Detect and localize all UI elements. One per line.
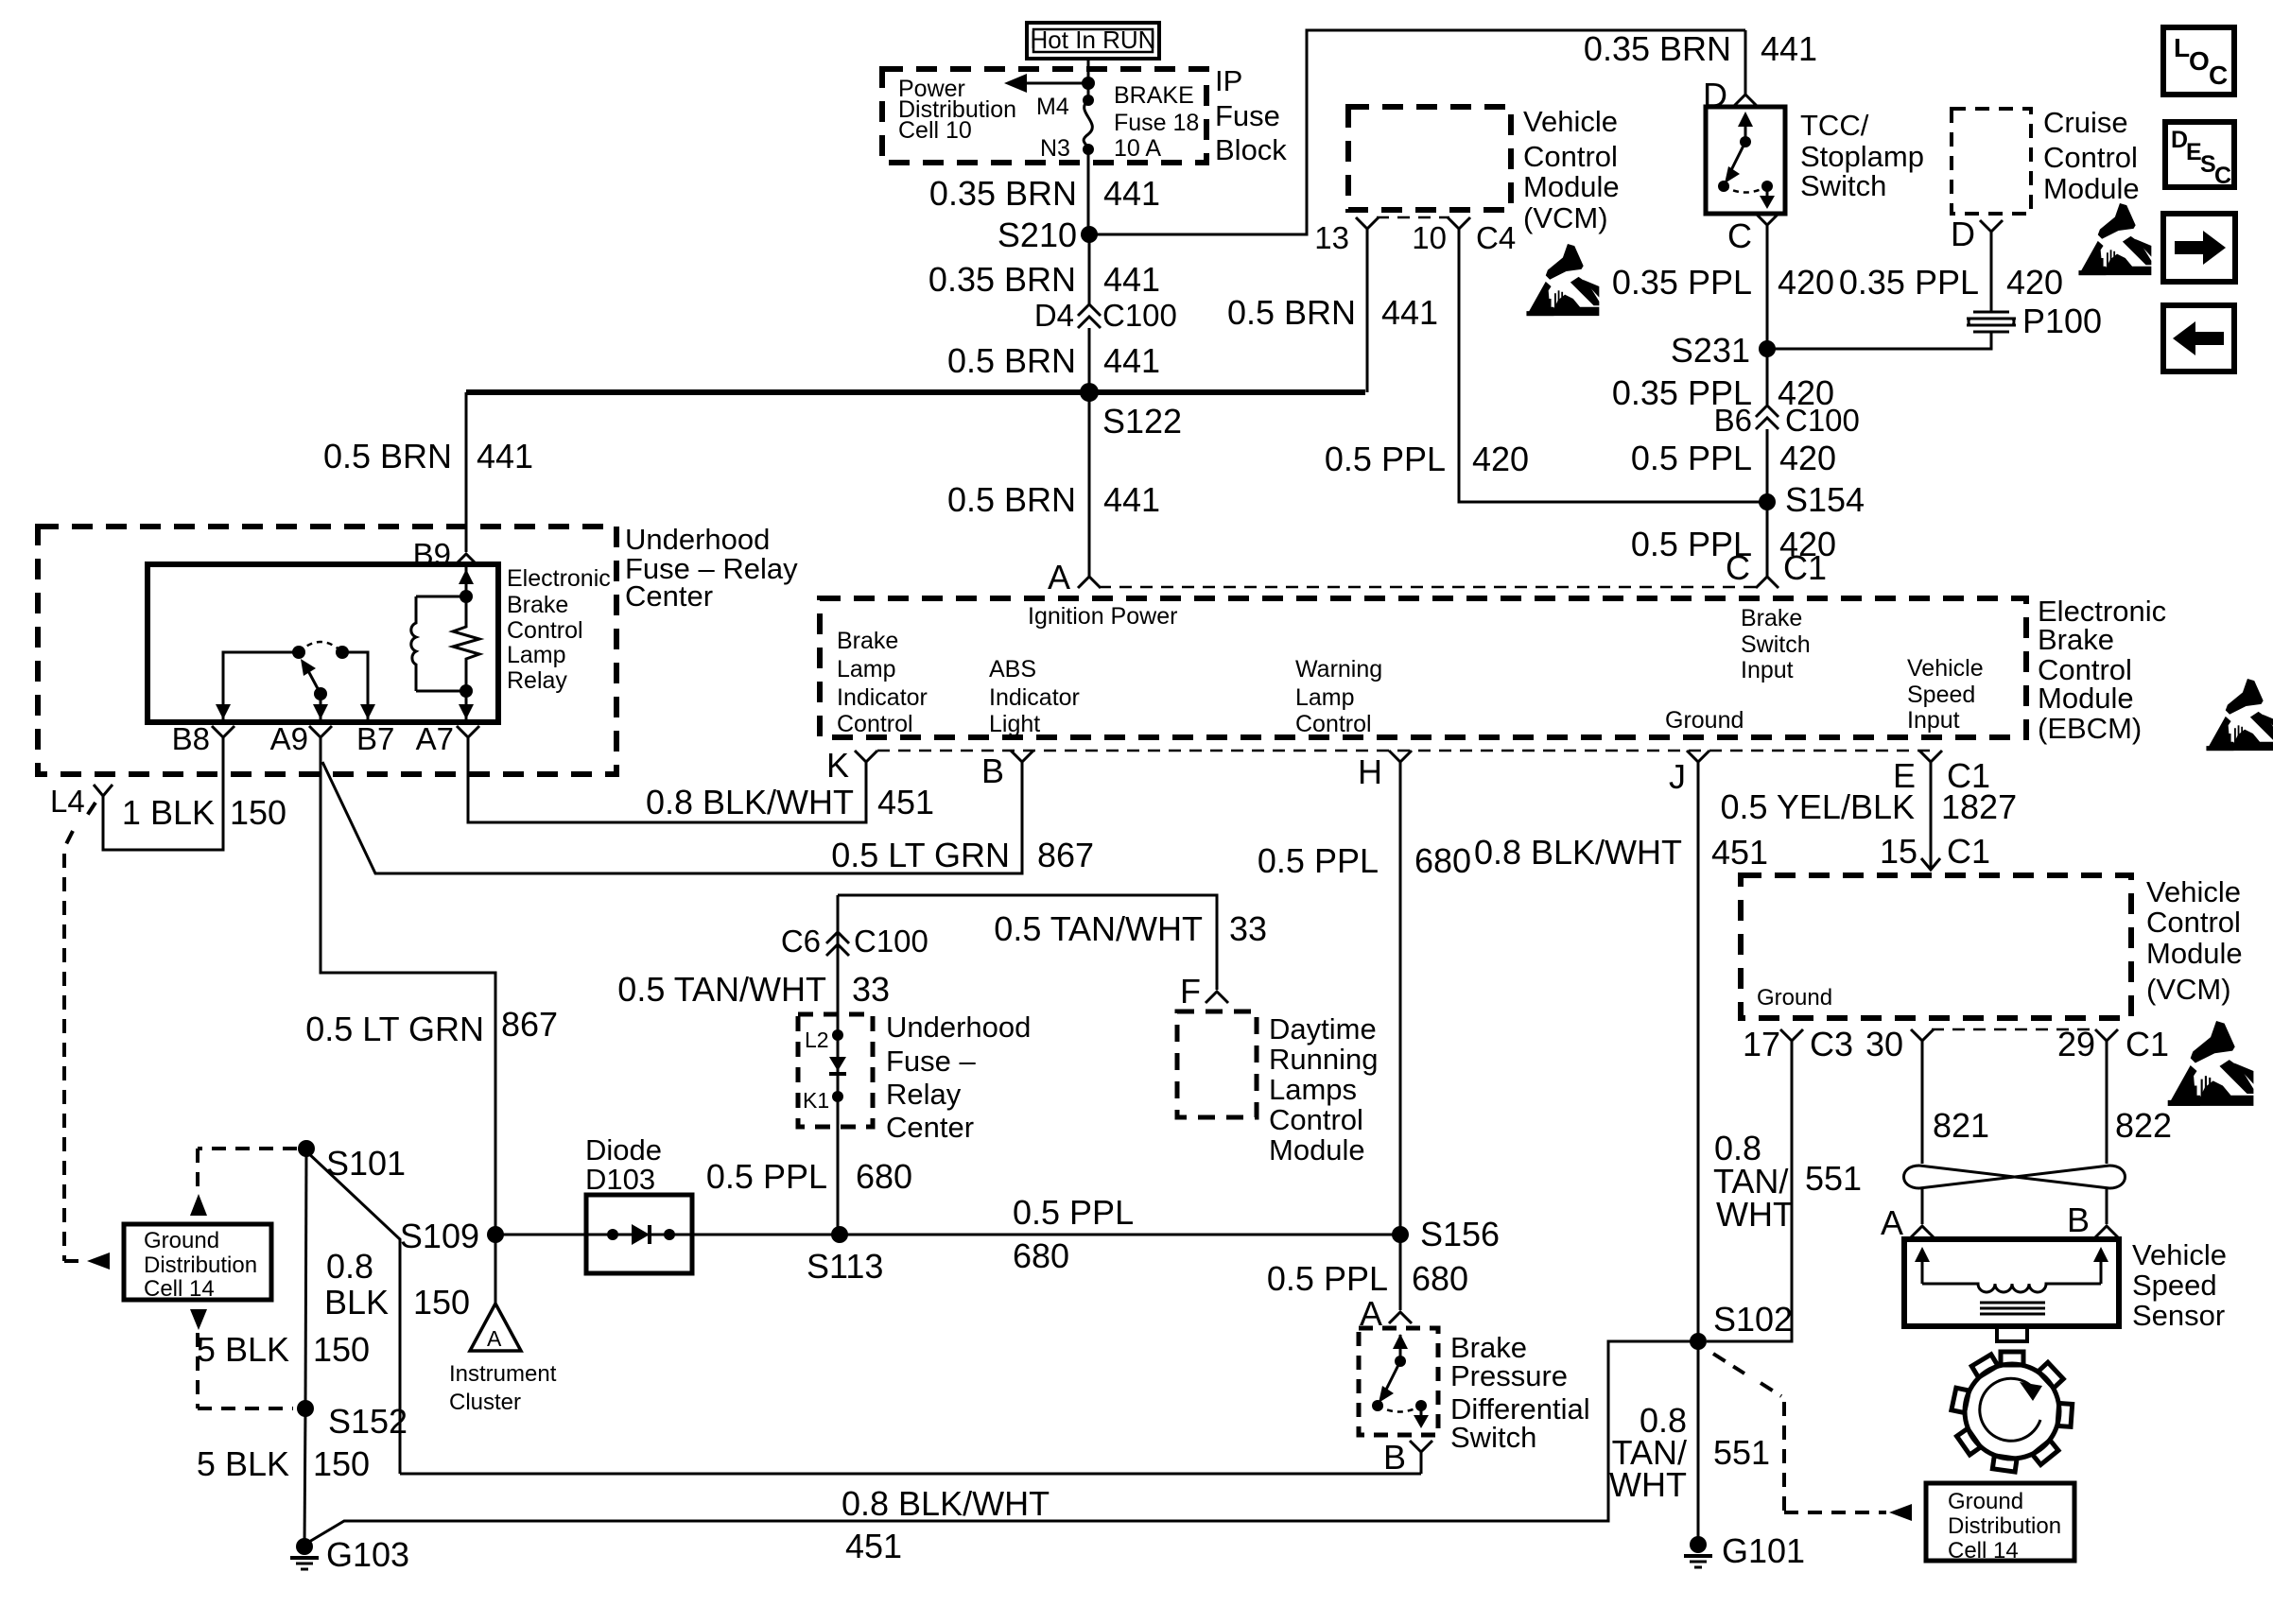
svg-text:441: 441 <box>1381 293 1438 332</box>
Daytime Running Lamps Control Module dashed box <box>1177 1011 1257 1117</box>
wire twisted pair to VSS A <box>1921 1189 1924 1224</box>
BPDS pin A connector <box>1389 1312 1412 1323</box>
label Vehicle Control Module (VCM) <box>2146 875 2243 1006</box>
svg-text:B: B <box>981 752 1004 790</box>
wire VCM 29 to VSS B, circuit 822 <box>2106 1061 2108 1164</box>
dashed wire S102 to ground distribution (right) <box>1713 1354 1886 1512</box>
wire EBCM H down to S156, 0.5 PPL 680 <box>1399 785 1402 1235</box>
svg-text:0.8 BLK/WHT: 0.8 BLK/WHT <box>1474 833 1682 872</box>
svg-text:0.5 PPL: 0.5 PPL <box>1325 440 1446 478</box>
wire S109 to S113 to S156 <box>495 1234 1400 1236</box>
VSS internals: arrows and coil <box>1915 1247 2108 1314</box>
VCM pin 30 connector <box>1911 1029 1934 1061</box>
svg-text:Indicator: Indicator <box>837 684 928 711</box>
thin dashed connector line VCM bottom <box>1932 1028 2097 1031</box>
Underhood Fuse-Relay Center small dashed box (L2/K1) <box>798 1014 873 1127</box>
wire A7 to EBCM K, 0.8 BLK/WHT 451 <box>468 756 866 822</box>
wire C6 to daytime running lamps F, 0.5 TAN/WHT 33 <box>838 895 1217 990</box>
label Power Distribution Cell 10 <box>898 76 1016 144</box>
svg-text:Fuse –: Fuse – <box>886 1045 977 1078</box>
label Warning Lamp Control <box>1295 656 1382 737</box>
svg-text:H: H <box>1358 752 1382 791</box>
svg-text:N3: N3 <box>1040 135 1070 162</box>
svg-text:Underhood: Underhood <box>625 523 770 556</box>
forward arrow box <box>2163 214 2235 282</box>
pass-through grommet P100 <box>1967 312 2016 332</box>
svg-text:Module: Module <box>2146 937 2243 970</box>
wire S109 to instrument cluster <box>495 1235 497 1304</box>
label BRAKE Fuse 18 10 A <box>1114 82 1199 162</box>
svg-text:Ground: Ground <box>1757 985 1832 1011</box>
svg-text:Input: Input <box>1907 707 1960 734</box>
relay coil + resistor branch <box>411 567 479 719</box>
connector C100 pin C6 (double chevron) <box>826 932 849 956</box>
svg-text:C100: C100 <box>1102 298 1177 333</box>
svg-text:0.5 LT GRN: 0.5 LT GRN <box>305 1010 484 1048</box>
Brake Pressure Differential Switch dashed box <box>1359 1328 1438 1435</box>
svg-text:0.5 BRN: 0.5 BRN <box>1227 293 1356 332</box>
svg-text:IP: IP <box>1215 64 1242 97</box>
splice S231 <box>1759 340 1776 357</box>
svg-text:G101: G101 <box>1722 1531 1805 1570</box>
svg-text:Fuse: Fuse <box>1215 99 1280 132</box>
svg-text:S122: S122 <box>1102 402 1182 441</box>
svg-text:J: J <box>1669 757 1686 796</box>
svg-text:L4: L4 <box>50 784 85 819</box>
svg-text:0.5 PPL: 0.5 PPL <box>1258 841 1379 880</box>
svg-text:C1: C1 <box>1783 548 1827 587</box>
IP Fuse Block dashed box <box>882 69 1206 163</box>
svg-text:Pressure: Pressure <box>1450 1359 1568 1392</box>
svg-text:Control: Control <box>1269 1103 1363 1136</box>
svg-text:Switch: Switch <box>1800 169 1886 202</box>
ESD symbol near VCM <box>1526 244 1599 316</box>
svg-text:Fuse 18: Fuse 18 <box>1114 110 1199 136</box>
svg-text:C: C <box>2214 163 2231 189</box>
EBCM pin K connector <box>855 751 877 785</box>
wire S102 to G101, 0.8 TAN/WHT 551 <box>1697 1341 1700 1545</box>
svg-text:0.5 PPL: 0.5 PPL <box>1013 1193 1134 1232</box>
label Electronic Brake Control Module (EBCM) <box>2038 595 2166 745</box>
svg-text:441: 441 <box>1103 260 1160 299</box>
EBCM dashed box <box>820 598 2026 737</box>
reference arrow up (above ground distribution box) <box>190 1194 207 1216</box>
svg-text:M4: M4 <box>1036 94 1069 120</box>
svg-text:Vehicle: Vehicle <box>2146 875 2241 908</box>
Vehicle Speed Sensor box <box>1904 1239 2119 1326</box>
instrument cluster triangle A <box>470 1304 521 1351</box>
wire S122 to EBCM A, 0.5 BRN 441 <box>1088 392 1091 577</box>
svg-text:Speed: Speed <box>1907 682 1975 708</box>
svg-text:P100: P100 <box>2022 302 2102 340</box>
wire A9 to EBCM B, 0.5 LT GRN 867 <box>322 762 1022 873</box>
svg-text:451: 451 <box>1711 833 1768 872</box>
svg-text:5 BLK: 5 BLK <box>197 1444 289 1483</box>
svg-text:(VCM): (VCM) <box>1523 201 1608 234</box>
svg-text:A7: A7 <box>416 721 454 756</box>
VCM (bottom) dashed box <box>1741 875 2131 1018</box>
svg-text:C100: C100 <box>1785 403 1860 438</box>
svg-text:Distribution: Distribution <box>1948 1513 2061 1539</box>
wire BPDS B to S101 branch, 451 line <box>400 1473 1421 1476</box>
svg-text:TCC/: TCC/ <box>1800 109 1869 142</box>
VCM pin 13 connector <box>1356 217 1379 242</box>
Underhood Fuse-Relay Center dashed box <box>38 527 616 774</box>
svg-text:Module: Module <box>2043 172 2140 205</box>
svg-text:O: O <box>2189 46 2210 76</box>
svg-text:Brake: Brake <box>837 628 898 654</box>
label Brake Pressure Differential Switch <box>1450 1331 1590 1454</box>
TCC pin D connector <box>1734 95 1757 106</box>
svg-text:420: 420 <box>1779 439 1836 477</box>
svg-text:Relay: Relay <box>886 1078 962 1111</box>
label Electronic Brake Control Lamp Relay <box>507 565 611 694</box>
EBCM pin H connector <box>1389 751 1412 785</box>
svg-text:A9: A9 <box>270 721 308 756</box>
svg-text:C1: C1 <box>2126 1025 2169 1063</box>
splice S152 <box>297 1400 314 1417</box>
svg-text:680: 680 <box>1412 1259 1468 1298</box>
svg-text:Lamp: Lamp <box>1295 684 1355 711</box>
svg-text:Switch: Switch <box>1741 631 1811 658</box>
arrow to Power Distribution <box>1004 74 1095 93</box>
svg-text:Vehicle: Vehicle <box>2132 1238 2227 1271</box>
svg-text:30: 30 <box>1865 1025 1903 1063</box>
svg-text:S101: S101 <box>326 1144 406 1183</box>
svg-text:Block: Block <box>1215 133 1287 166</box>
svg-text:17: 17 <box>1743 1025 1780 1063</box>
svg-text:ABS: ABS <box>989 656 1036 682</box>
svg-text:K: K <box>826 746 849 785</box>
svg-text:Control: Control <box>1295 711 1372 737</box>
svg-text:0.5 PPL: 0.5 PPL <box>706 1157 827 1196</box>
svg-text:S210: S210 <box>998 216 1077 254</box>
EBCM pin C connector <box>1756 577 1778 588</box>
label TCC/ Stoplamp Switch <box>1800 109 1924 202</box>
svg-text:0.8: 0.8 <box>326 1247 373 1286</box>
svg-text:L: L <box>2174 33 2190 62</box>
svg-text:1827: 1827 <box>1941 787 2017 826</box>
svg-text:0.5 BRN: 0.5 BRN <box>323 437 452 475</box>
EBCM pin J connector <box>1687 751 1709 785</box>
svg-text:Ignition Power: Ignition Power <box>1028 603 1177 630</box>
svg-text:0.5 BRN: 0.5 BRN <box>947 480 1076 519</box>
svg-text:0.8 BLK/WHT: 0.8 BLK/WHT <box>842 1484 1050 1523</box>
svg-text:Cell 14: Cell 14 <box>144 1276 215 1302</box>
svg-text:0.5 BRN: 0.5 BRN <box>947 341 1076 380</box>
svg-text:0.35 BRN: 0.35 BRN <box>1584 29 1731 68</box>
svg-text:D103: D103 <box>585 1163 655 1196</box>
ground G101 <box>1684 1536 1712 1567</box>
svg-text:Sensor: Sensor <box>2132 1299 2225 1332</box>
wire G103 to S102, lower 451 line <box>304 1341 1691 1545</box>
EBCM pin A connector <box>1078 577 1101 588</box>
svg-text:WHT: WHT <box>1716 1195 1794 1234</box>
Hot In RUN box <box>1027 23 1159 59</box>
svg-text:451: 451 <box>845 1527 902 1565</box>
VCM (top) dashed box <box>1348 107 1511 210</box>
label Diode D103 <box>585 1133 662 1196</box>
wire S210 right to top line <box>1089 30 1745 234</box>
svg-text:S102: S102 <box>1713 1300 1793 1339</box>
svg-text:Running: Running <box>1269 1043 1378 1076</box>
svg-text:1 BLK: 1 BLK <box>122 793 215 832</box>
wire cruise D to P100, 0.35 PPL 420 <box>1990 245 1993 312</box>
svg-text:551: 551 <box>1713 1433 1770 1472</box>
svg-text:B8: B8 <box>172 721 210 756</box>
svg-text:441: 441 <box>477 437 533 475</box>
svg-text:Brake: Brake <box>2038 623 2114 656</box>
reference arrow down (below ground distribution box) <box>190 1309 207 1330</box>
svg-text:Control: Control <box>2043 141 2138 174</box>
thin dashed connector line EBCM bottom <box>877 750 1931 752</box>
svg-text:Distribution: Distribution <box>144 1253 257 1278</box>
svg-text:Center: Center <box>625 579 713 613</box>
svg-text:B6: B6 <box>1714 403 1752 438</box>
svg-text:Speed: Speed <box>2132 1269 2217 1302</box>
twisted pair symbol <box>1904 1166 2126 1188</box>
svg-text:S152: S152 <box>328 1402 408 1441</box>
svg-text:Ground: Ground <box>144 1228 219 1253</box>
wire Hot In RUN to fuse M4 <box>1087 59 1090 100</box>
svg-text:15: 15 <box>1880 832 1917 871</box>
pin A9 connector <box>309 726 332 756</box>
svg-text:K1: K1 <box>803 1088 829 1113</box>
svg-text:441: 441 <box>1103 174 1160 213</box>
svg-text:Cluster: Cluster <box>449 1390 521 1415</box>
svg-text:0.35 PPL: 0.35 PPL <box>1612 263 1752 302</box>
svg-text:Center: Center <box>886 1111 974 1144</box>
wire P100 to S231 <box>1767 332 1991 349</box>
svg-text:Ground: Ground <box>1665 707 1744 734</box>
wire top line down to TCC D <box>1744 30 1747 95</box>
svg-text:821: 821 <box>1933 1106 1989 1145</box>
svg-text:29: 29 <box>2057 1025 2095 1063</box>
pin A7 connector <box>457 726 479 756</box>
wire fuse N3 to S210, 0.35 BRN 441 <box>1087 149 1090 234</box>
svg-text:867: 867 <box>501 1005 558 1044</box>
VSS pin B connector <box>2095 1226 2118 1237</box>
wire S156 to BPDS A, 0.5 PPL 680 <box>1399 1235 1402 1310</box>
label Vehicle Speed Sensor <box>2132 1238 2227 1332</box>
svg-text:C: C <box>2209 60 2228 90</box>
svg-text:Input: Input <box>1741 657 1794 683</box>
connector C100 pin B6 <box>1756 406 1778 429</box>
svg-text:0.8 BLK/WHT: 0.8 BLK/WHT <box>646 783 854 821</box>
wire C100 to S122, 0.5 BRN 441 <box>1088 328 1091 392</box>
svg-text:0.35 PPL: 0.35 PPL <box>1839 263 1979 302</box>
svg-text:D: D <box>1951 215 1975 253</box>
splice S154 <box>1759 493 1776 510</box>
dashed wire ground distribution to S152 <box>198 1333 293 1408</box>
svg-text:0.35 BRN: 0.35 BRN <box>928 260 1076 299</box>
wire S101 diagonal to 451 line, 0.8 BLK 150 <box>306 1151 400 1474</box>
label 0.8 TAN/WHT 551 (17/C3 wire) <box>1713 1129 1794 1234</box>
svg-text:Warning: Warning <box>1295 656 1382 682</box>
BPDS internals <box>1372 1334 1429 1428</box>
svg-text:0.5 LT GRN: 0.5 LT GRN <box>831 836 1010 874</box>
pin B8 connector <box>212 726 234 756</box>
VSS pin A connector <box>1911 1226 1934 1237</box>
wire C100 B6 to S154, 0.5 PPL 420 <box>1766 429 1769 502</box>
wire K1 to S113 / C6 chain <box>837 895 840 1235</box>
LOC box <box>2163 27 2234 95</box>
label Vehicle Speed Input <box>1907 655 1984 734</box>
svg-text:C6: C6 <box>781 924 821 959</box>
svg-text:Relay: Relay <box>507 667 567 694</box>
svg-text:C: C <box>1726 548 1750 587</box>
svg-text:822: 822 <box>2115 1106 2172 1145</box>
svg-text:Cruise: Cruise <box>2043 106 2128 139</box>
svg-text:451: 451 <box>877 783 934 821</box>
Cruise Control Module dashed box <box>1952 109 2031 214</box>
svg-text:0.5 TAN/WHT: 0.5 TAN/WHT <box>617 970 826 1009</box>
svg-text:Brake: Brake <box>1741 605 1802 631</box>
splice S113 <box>831 1226 848 1243</box>
svg-text:Underhood: Underhood <box>886 1011 1031 1044</box>
svg-text:13: 13 <box>1314 220 1349 255</box>
svg-text:Stoplamp: Stoplamp <box>1800 140 1924 173</box>
relay K1 terminal <box>832 1091 843 1102</box>
dashed wire L4 to ground distribution <box>64 803 95 1261</box>
relay L2 terminal <box>832 1029 843 1041</box>
svg-text:Lamp: Lamp <box>507 642 566 668</box>
wire A9 down to S109, 0.5 LT GRN 867 <box>321 756 495 1235</box>
TCC pin C connector <box>1756 214 1778 238</box>
diode D103 symbol <box>607 1224 675 1245</box>
svg-text:B7: B7 <box>356 721 394 756</box>
svg-text:0.5 YEL/BLK: 0.5 YEL/BLK <box>1721 787 1916 826</box>
svg-text:420: 420 <box>2006 263 2063 302</box>
svg-text:B: B <box>2067 1201 2090 1239</box>
svg-text:C100: C100 <box>854 924 928 959</box>
svg-text:G103: G103 <box>326 1535 409 1574</box>
diode D103 box <box>586 1195 692 1273</box>
svg-text:33: 33 <box>852 970 890 1009</box>
splice S102 <box>1690 1333 1707 1350</box>
ground G103 <box>290 1538 319 1569</box>
wire VCM C4 down to S154 line, 0.5 PPL 420 <box>1459 242 1767 502</box>
wire S154 to EBCM C, 0.5 PPL 420 <box>1766 502 1769 577</box>
svg-text:C3: C3 <box>1810 1025 1853 1063</box>
svg-text:150: 150 <box>313 1330 370 1369</box>
Ground Distribution Cell 14 box (right) <box>1926 1483 2074 1561</box>
reluctor gear <box>1952 1352 2073 1472</box>
label Underhood Fuse - Relay Center <box>625 523 798 613</box>
VCM pin 10 C4 connector <box>1448 217 1470 242</box>
EBCM pin E connector <box>1919 751 1942 785</box>
svg-text:C4: C4 <box>1476 220 1516 255</box>
svg-text:0.5 PPL: 0.5 PPL <box>1267 1259 1388 1298</box>
wire twisted pair to VSS B <box>2106 1189 2108 1224</box>
connector L4 <box>94 785 113 796</box>
svg-text:Switch: Switch <box>1450 1421 1536 1454</box>
svg-text:(EBCM): (EBCM) <box>2038 712 2142 745</box>
svg-text:C: C <box>1727 216 1752 255</box>
svg-text:Lamp: Lamp <box>837 656 896 682</box>
svg-text:S231: S231 <box>1671 331 1750 370</box>
svg-text:420: 420 <box>1778 263 1834 302</box>
svg-text:Vehicle: Vehicle <box>1523 105 1618 138</box>
ESD symbol near cruise <box>2078 203 2151 275</box>
svg-text:Diode: Diode <box>585 1133 662 1166</box>
svg-text:S154: S154 <box>1785 480 1865 519</box>
Cruise pin D connector <box>1980 220 2003 245</box>
svg-text:Cell 14: Cell 14 <box>1948 1538 2019 1564</box>
svg-text:867: 867 <box>1037 836 1094 874</box>
label Brake Switch Input <box>1741 605 1811 683</box>
svg-text:BLK: BLK <box>324 1283 389 1322</box>
wire TCC C down to S231, 0.35 PPL 420 <box>1766 238 1769 349</box>
svg-text:441: 441 <box>1103 480 1160 519</box>
splice S210 <box>1081 226 1098 243</box>
wire S231 to C100 B6, 0.35 PPL 420 <box>1766 349 1769 405</box>
svg-text:0.35 BRN: 0.35 BRN <box>929 174 1077 213</box>
svg-text:441: 441 <box>1761 29 1817 68</box>
svg-text:B: B <box>1383 1438 1406 1477</box>
DESC box <box>2165 122 2234 189</box>
label ABS Indicator Light <box>989 656 1080 737</box>
ESD symbol near EBCM <box>2206 679 2273 751</box>
reference arrow into ground distribution (left) <box>87 1253 110 1270</box>
svg-text:F: F <box>1180 972 1201 1011</box>
svg-text:150: 150 <box>230 793 286 832</box>
connector C100 pin D4 (double chevron) <box>1078 304 1101 328</box>
pin B9 connector <box>455 554 477 565</box>
splice S122 <box>1080 383 1099 402</box>
svg-text:D4: D4 <box>1034 298 1074 333</box>
wire S210 to C100 D4, 0.35 BRN 441 <box>1088 234 1091 304</box>
label Vehicle Control Module (VCM) <box>1523 105 1620 234</box>
svg-text:680: 680 <box>856 1157 912 1196</box>
wire S122 bus down to B9 <box>465 392 468 552</box>
svg-text:Ground: Ground <box>1948 1489 2023 1514</box>
svg-text:A: A <box>1881 1203 1903 1242</box>
svg-text:Module: Module <box>1269 1133 1365 1166</box>
svg-text:Brake: Brake <box>507 592 568 618</box>
DRL pin F connector <box>1206 992 1228 1003</box>
svg-text:L2: L2 <box>805 1028 829 1052</box>
svg-text:BRAKE: BRAKE <box>1114 82 1194 109</box>
svg-text:Control: Control <box>1523 140 1618 173</box>
svg-text:441: 441 <box>1103 341 1160 380</box>
BPDS pin B connector <box>1410 1441 1432 1474</box>
VCM pin 29 C1 connector <box>2095 1029 2118 1061</box>
wire S101 to S152, 5 BLK 150 <box>305 1149 306 1408</box>
svg-text:0.5 TAN/WHT: 0.5 TAN/WHT <box>994 909 1203 948</box>
svg-text:Vehicle: Vehicle <box>1907 655 1984 682</box>
svg-text:Module: Module <box>2038 682 2134 715</box>
svg-text:Hot In RUN: Hot In RUN <box>1031 26 1156 54</box>
diode inside L2/K1 <box>829 1057 846 1074</box>
svg-text:A: A <box>487 1326 502 1351</box>
svg-text:Module: Module <box>1523 170 1620 203</box>
svg-text:Control: Control <box>837 711 913 737</box>
TCC/Stoplamp switch box <box>1706 107 1785 214</box>
svg-text:10 A: 10 A <box>1114 135 1161 162</box>
svg-text:680: 680 <box>1013 1236 1069 1275</box>
svg-text:33: 33 <box>1229 909 1267 948</box>
svg-text:Instrument: Instrument <box>449 1361 557 1387</box>
svg-text:Lamps: Lamps <box>1269 1073 1357 1106</box>
svg-text:Control: Control <box>2146 906 2241 939</box>
svg-text:C1: C1 <box>1947 832 1990 871</box>
relay switch contacts <box>216 642 375 719</box>
svg-text:420: 420 <box>1472 440 1529 478</box>
svg-text:WHT: WHT <box>1609 1465 1687 1504</box>
svg-text:150: 150 <box>313 1444 370 1483</box>
svg-text:680: 680 <box>1414 841 1471 880</box>
